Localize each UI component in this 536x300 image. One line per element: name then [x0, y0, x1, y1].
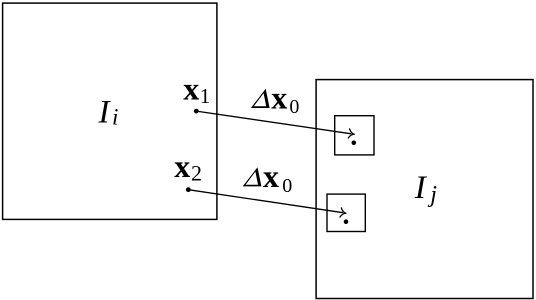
- svg-text:1: 1: [200, 84, 211, 108]
- svg-text:x: x: [271, 79, 287, 115]
- node: dot in patch box 1: [352, 141, 357, 146]
- node x2 (dot in left image): [186, 187, 191, 192]
- image frame I_i (left rectangle): [3, 3, 217, 219]
- patch box 2 (lower small square): [327, 194, 365, 231]
- svg-text:j: j: [427, 182, 437, 208]
- svg-text:x: x: [183, 70, 199, 106]
- arrowhead of line 2: [340, 208, 347, 218]
- image frame I_j (right rectangle): [316, 80, 533, 299]
- label Delta x_0 (lower): Delta drawn as CM-style triangle: [243, 167, 262, 186]
- patch box 1 (upper small square): [335, 116, 374, 155]
- svg-text:0: 0: [289, 96, 299, 118]
- svg-text:I: I: [98, 94, 112, 130]
- svg-text:x: x: [263, 158, 279, 194]
- svg-text:0: 0: [282, 175, 292, 197]
- svg-text:2: 2: [191, 160, 202, 185]
- svg-text:x: x: [174, 148, 190, 184]
- wire: displacement line 2 from x2: [188, 190, 343, 213]
- svg-text:I: I: [414, 170, 428, 206]
- svg-text:i: i: [112, 104, 118, 129]
- arrowhead of line 1: [348, 129, 355, 139]
- label Delta x_0 (upper): Delta drawn as CM-style triangle: [251, 89, 270, 108]
- node: dot in patch box 2: [344, 219, 349, 224]
- node x1 (dot in left image): [194, 109, 199, 114]
- wire: displacement line 1 from x1: [196, 111, 351, 134]
